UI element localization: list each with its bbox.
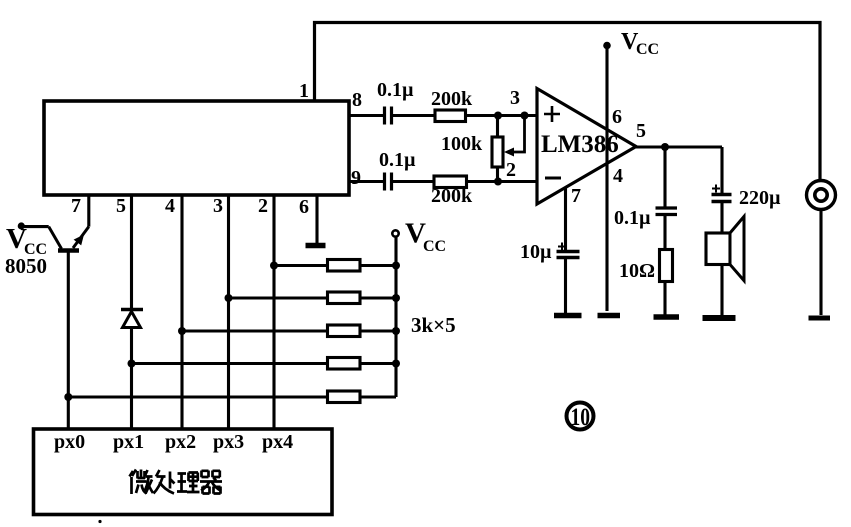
resistor R7 3k (row 4)	[132, 362, 397, 365]
svg-text:px0: px0	[54, 431, 85, 453]
resistor R1 200k (top)	[435, 110, 466, 122]
svg-text:4: 4	[165, 195, 175, 217]
svg-text:px2: px2	[165, 431, 196, 453]
wiper of RP 100k	[511, 116, 525, 153]
svg-text:CC: CC	[423, 238, 446, 255]
label: microprocessor (Chinese) hand-drawn strokes	[130, 470, 223, 495]
svg-text:0.1µ: 0.1µ	[377, 79, 414, 101]
potentiometer RP 100k	[496, 116, 499, 182]
ground under C3	[554, 313, 582, 319]
capacitor C3 10u (bypass on pin 7)	[557, 252, 580, 258]
node row2 right junction	[392, 294, 400, 302]
wire pin9 to C2	[349, 180, 384, 183]
svg-text:3: 3	[510, 87, 520, 109]
svg-text:7: 7	[71, 195, 81, 217]
svg-text:CC: CC	[636, 41, 659, 58]
wire output to C5 and speaker	[720, 147, 723, 315]
figure number 10 circled	[567, 403, 594, 430]
wire output to C4	[663, 147, 666, 207]
node Vcc terminal (Q1)	[18, 222, 25, 229]
wire C3 to ground	[564, 258, 567, 314]
node row3 right junction	[392, 327, 400, 335]
node row2 left junction	[225, 294, 233, 302]
diode D1	[121, 308, 143, 311]
capacitor C4 0.1u (zobel)	[656, 208, 678, 215]
node row1 left junction	[270, 262, 278, 270]
node A (RP top / pin 3 wire)	[494, 112, 502, 120]
wire R1 to LM386 + input (pin 3)	[466, 114, 538, 117]
wire R2 to LM386 - input (pin 2)	[467, 180, 538, 183]
wire C4 to R3	[663, 215, 666, 250]
svg-text:2: 2	[506, 159, 516, 181]
svg-text:8050: 8050	[5, 254, 47, 278]
resistor R3 10ohm	[660, 250, 673, 282]
svg-text:8: 8	[352, 89, 362, 111]
node row3 left junction	[178, 327, 186, 335]
resistor R2 200k (bottom)	[434, 176, 467, 188]
node C (RP bottom / pin 2 wire)	[494, 178, 502, 186]
wire Q1 base down to px0	[67, 251, 70, 430]
svg-text:6: 6	[612, 106, 622, 128]
svg-text:px1: px1	[113, 431, 144, 453]
wire pin8 to C1	[349, 114, 384, 117]
speaker LS1	[706, 233, 730, 265]
resistor R6 3k (row 3)	[182, 329, 396, 332]
resistor R8 3k (row 5)	[68, 395, 396, 398]
microprocessor box	[34, 429, 333, 515]
ground under speaker	[703, 315, 736, 321]
capacitor C1 0.1u (top coupling cap)	[385, 107, 392, 125]
node D (output junction)	[661, 143, 669, 151]
wire Vcc rail through pin6 / pin4 down to ground	[605, 45, 608, 311]
scan speck	[98, 520, 101, 523]
svg-text:10Ω: 10Ω	[619, 260, 655, 282]
node B (RP wiper / pin 3 wire)	[521, 112, 529, 120]
Vcc terminal (resistor network)	[392, 230, 398, 236]
capacitor C2 0.1u (bottom coupling cap)	[385, 173, 392, 191]
svg-text:2: 2	[258, 195, 268, 217]
svg-text:3k×5: 3k×5	[411, 313, 456, 337]
wire R3 to ground	[663, 282, 666, 316]
node row1 right junction	[392, 262, 400, 270]
ground under pin4 rail	[598, 313, 621, 319]
capacitor C5 220u (output coupling)	[712, 195, 732, 202]
op-amp U2 LM386	[537, 89, 636, 205]
wire C2 to R2	[392, 180, 435, 183]
node Vcc terminal (amp rail)	[603, 42, 611, 50]
svg-text:0.1µ: 0.1µ	[379, 149, 416, 171]
wire Vcc to Q1	[21, 225, 48, 228]
svg-text:200k: 200k	[431, 88, 473, 110]
svg-text:3: 3	[213, 195, 223, 217]
ground under jack	[809, 316, 831, 321]
svg-text:px4: px4	[262, 431, 293, 453]
ground under R3	[654, 314, 680, 320]
svg-text:10: 10	[571, 404, 591, 431]
IC U1 (driver IC box)	[44, 101, 349, 195]
wire C1 to R1	[392, 114, 436, 117]
svg-text:5: 5	[116, 195, 126, 217]
svg-text:5: 5	[636, 120, 646, 142]
node row4 left junction	[128, 360, 136, 368]
node row4 right junction	[392, 360, 400, 368]
wire pin 7 of LM386 down	[564, 188, 567, 252]
svg-text:0.1µ: 0.1µ	[614, 207, 651, 229]
wire D1 to px1	[130, 328, 133, 430]
svg-text:px3: px3	[213, 431, 244, 453]
wire jack to ground	[819, 210, 822, 316]
wire top rail from pin 1 over to output jack	[315, 23, 821, 181]
transistor Q1 8050	[73, 227, 89, 248]
svg-text:1: 1	[299, 80, 309, 102]
svg-text:7: 7	[571, 185, 581, 207]
svg-text:100k: 100k	[441, 133, 483, 155]
svg-text:220µ: 220µ	[739, 187, 781, 209]
svg-text:9: 9	[351, 167, 361, 189]
output jack J1	[807, 181, 836, 210]
svg-text:4: 4	[613, 165, 623, 187]
svg-text:6: 6	[299, 196, 309, 218]
node row5 left junction	[64, 393, 72, 401]
wire common rail of 3k x 5 to Vcc	[394, 237, 397, 398]
resistor R5 3k (row 2)	[229, 296, 397, 299]
svg-text:10µ: 10µ	[520, 241, 552, 263]
resistor network R4 3k (row 1)	[274, 264, 396, 267]
ground under pin 6	[306, 243, 326, 249]
svg-text:200k: 200k	[431, 185, 473, 207]
